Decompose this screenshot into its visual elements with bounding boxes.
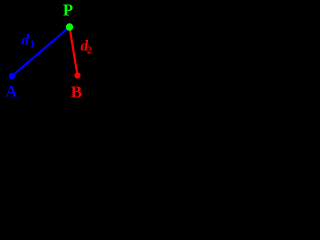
svg-text:B: B — [71, 82, 82, 101]
svg-text:P: P — [63, 1, 73, 20]
svg-text:1: 1 — [30, 39, 35, 50]
svg-text:A: A — [6, 83, 18, 100]
svg-text:2: 2 — [87, 46, 92, 57]
node B — [74, 72, 80, 78]
node A — [9, 73, 16, 80]
svg-text:d: d — [22, 33, 30, 49]
node P — [66, 23, 73, 30]
wire segment d2 (P to B) — [70, 27, 78, 76]
wire segment d1 (A to P) — [12, 27, 70, 76]
